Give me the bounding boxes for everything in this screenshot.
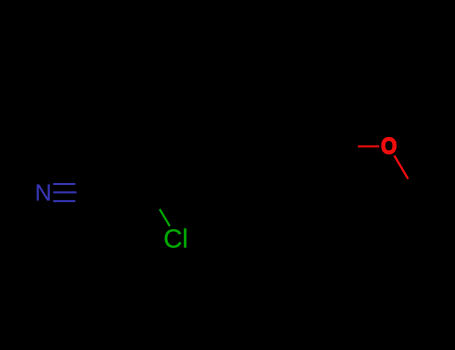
bond ring-O black half (337, 145, 358, 148)
bond C2-Cl green half (160, 209, 170, 226)
svg-text:N: N (35, 180, 52, 206)
bond ring-O red half (358, 145, 379, 147)
bond O-CH3 black half (to methyl carbon) (408, 179, 421, 203)
atom label O (methoxy oxygen) (383, 139, 394, 152)
ring kekule inner double bonds (260, 106, 306, 108)
bond O-CH3 red half (394, 156, 408, 179)
wire C1-C2 (nitrile C to chloro C, black) (100, 191, 149, 193)
benzene ring (black bonds, nearly invisible on black bg) (228, 100, 337, 194)
bond C2-Cl black half (149, 192, 160, 209)
wire C3 to ring left vertex (black) (176, 145, 228, 147)
triple bond black halves (toward C1) (76, 184, 100, 201)
svg-text:Cl: Cl (164, 224, 189, 254)
double bond C2=C3 (black) (149, 145, 176, 192)
nitrile triple bond blue halves (53, 184, 76, 201)
